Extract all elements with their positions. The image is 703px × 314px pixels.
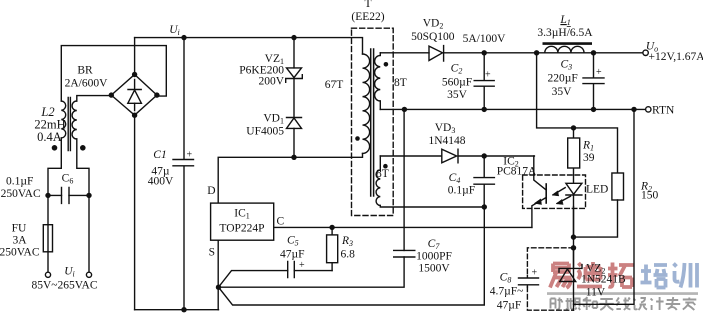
svg-text:L1: L1 — [559, 14, 570, 27]
node clamp to drain — [291, 155, 296, 160]
wire bias winding return rail — [380, 206, 484, 208]
primary phase dot — [355, 136, 360, 141]
svg-text:FU: FU — [12, 223, 27, 235]
resistor R3 6.8 — [331, 227, 333, 270]
IC1 TOP224P body — [211, 203, 274, 240]
svg-text:+12V,1.67A: +12V,1.67A — [649, 51, 703, 63]
wire feedback tap down to R1 R2 — [537, 53, 618, 173]
node C1 bottom — [181, 307, 186, 312]
node bias return C4 — [482, 204, 487, 209]
capacitor C1 47u 400V — [173, 38, 194, 310]
svg-text:+: + — [187, 150, 193, 161]
diode VD1 UF4005 — [287, 79, 302, 118]
wire C5 to R3 — [294, 270, 332, 272]
inductor L2 left winding — [61, 101, 65, 138]
watermark char ji — [651, 297, 664, 310]
fuse FU 3A — [43, 225, 52, 252]
optocoupler IC2 PC817A dashed box — [523, 175, 586, 208]
svg-text:LED: LED — [586, 184, 608, 196]
svg-text:6.8: 6.8 — [341, 249, 356, 261]
wire bias winding top — [379, 156, 381, 170]
svg-text:C2: C2 — [451, 63, 463, 76]
opto light arrow 2 — [557, 196, 570, 203]
svg-text:RTN: RTN — [652, 105, 675, 117]
L2 phase dot right — [80, 145, 86, 151]
watermark underline — [547, 292, 698, 295]
node Ui rail C1 tap — [181, 35, 186, 40]
svg-text:220µF: 220µF — [548, 73, 578, 85]
svg-text:0.4A: 0.4A — [37, 130, 62, 144]
capacitor C8 dashed connections — [527, 248, 573, 310]
watermark char he — [583, 297, 598, 310]
wire C7 to RTN drop — [403, 109, 405, 250]
node bridge right vertex — [154, 92, 159, 97]
inductor L2 right winding — [72, 101, 77, 139]
svg-text:39: 39 — [583, 152, 595, 164]
terminal Ui right — [86, 272, 91, 277]
svg-text:0.1µF: 0.1µF — [6, 176, 33, 188]
watermark slogan gray — [551, 297, 697, 310]
svg-text:C8: C8 — [500, 272, 512, 285]
wire bridge plus output to top rail — [134, 38, 136, 75]
wire secondary bottom to RTN — [379, 101, 381, 109]
node VD3 cathode C4 — [482, 153, 487, 158]
svg-text:C3: C3 — [560, 59, 572, 72]
svg-text:8T: 8T — [394, 77, 407, 89]
wire S to C5 line — [219, 271, 288, 288]
zener VZ2 1N5241B — [560, 269, 576, 282]
svg-text:400V: 400V — [148, 176, 174, 188]
svg-text:250VAC: 250VAC — [0, 247, 40, 259]
node feedback tap — [534, 50, 539, 55]
svg-text:5A/100V: 5A/100V — [463, 33, 507, 45]
wire L2 right to bridge left vertex — [77, 96, 112, 101]
svg-text:C: C — [277, 216, 285, 228]
svg-text:BR: BR — [77, 65, 93, 77]
svg-text:50SQ100: 50SQ100 — [411, 31, 455, 43]
svg-text:C6: C6 — [62, 173, 74, 186]
wire source S pin — [217, 240, 219, 310]
svg-text:R1: R1 — [582, 140, 594, 153]
transformer T dashed box — [352, 28, 394, 215]
capacitor C6 0.1uF plates — [62, 187, 70, 203]
bias phase dot — [383, 164, 388, 169]
svg-text:4.7µF~: 4.7µF~ — [490, 286, 524, 298]
svg-text:67T: 67T — [325, 79, 344, 91]
svg-text:3A: 3A — [12, 235, 27, 247]
svg-text:UF4005: UF4005 — [246, 126, 284, 138]
svg-text:R3: R3 — [341, 235, 353, 248]
wire C6 leads — [48, 194, 89, 196]
wire LED cathode to VZ2 — [573, 207, 575, 267]
wire output rail secondary — [380, 52, 643, 54]
watermark logo text red — [550, 262, 634, 288]
bridge BR inner diode — [128, 80, 141, 111]
svg-text:TOP224P: TOP224P — [219, 223, 264, 235]
svg-text:Ui: Ui — [64, 266, 75, 279]
svg-text:8T: 8T — [376, 168, 389, 180]
terminal Ui left — [45, 272, 50, 277]
svg-text:0.1µF: 0.1µF — [448, 185, 475, 197]
wire bias to VD3 — [380, 155, 534, 157]
svg-text:(EE22): (EE22) — [351, 11, 384, 23]
inductor L1 core bar — [544, 42, 591, 45]
wire AC input left branch — [48, 138, 61, 272]
watermark char she — [551, 298, 563, 310]
watermark char pin — [566, 298, 581, 310]
svg-text:D: D — [207, 185, 215, 197]
node C6 left — [45, 193, 50, 198]
resistor R1 39 — [573, 128, 575, 138]
svg-text:85V~265VAC: 85V~265VAC — [31, 280, 97, 292]
watermark char pei — [641, 265, 668, 288]
svg-text:Ui: Ui — [169, 24, 180, 37]
svg-text:1500V: 1500V — [418, 263, 450, 275]
svg-text:250VAC: 250VAC — [1, 188, 41, 200]
wire drain D to primary winding — [218, 154, 362, 204]
wire VZ2 return to RTN — [574, 109, 635, 304]
svg-text:VD2: VD2 — [423, 18, 444, 31]
svg-text:1000PF: 1000PF — [416, 251, 452, 263]
watermark char she2 — [634, 298, 648, 310]
wire S to bias return — [219, 207, 485, 305]
watermark logo text blue — [641, 263, 698, 288]
transformer primary winding 67T — [363, 54, 370, 153]
node C8 dashed tap — [571, 245, 576, 250]
svg-text:VD3: VD3 — [435, 122, 456, 135]
watermark char tian — [599, 299, 614, 310]
svg-text:1N5241B: 1N5241B — [581, 274, 626, 286]
transient suppressor VZ1 P6KE200 — [293, 38, 295, 68]
L2 phase dot left — [52, 145, 58, 151]
svg-text:+: + — [485, 70, 491, 81]
node C6 right — [86, 193, 91, 198]
svg-text:+: + — [299, 260, 305, 271]
svg-text:C5: C5 — [287, 235, 299, 248]
watermark char jia — [683, 298, 697, 311]
watermark char zhuan — [666, 297, 681, 310]
svg-text:11V: 11V — [586, 287, 606, 299]
terminal RTN — [646, 107, 651, 112]
bridge rectifier BR diamond — [111, 75, 157, 116]
capacitor C8 4.7uF-47uF plates — [519, 276, 539, 287]
watermark char tuo — [608, 263, 634, 288]
svg-text:VD1: VD1 — [263, 113, 284, 126]
opto emitter arrowhead — [534, 199, 541, 205]
wire RTN rail — [380, 108, 645, 110]
node LED cathode R2 — [571, 234, 576, 239]
svg-text:C7: C7 — [428, 238, 441, 251]
svg-text:2A/600V: 2A/600V — [65, 78, 109, 90]
opto phototransistor collector — [534, 156, 546, 190]
watermark char di — [577, 262, 602, 287]
transformer secondary winding 8T — [375, 55, 381, 101]
svg-text:+: + — [532, 268, 538, 279]
opto phototransistor bar — [545, 184, 547, 203]
node R1 top — [571, 125, 576, 130]
svg-text:C4: C4 — [449, 172, 461, 185]
svg-text:150: 150 — [641, 190, 659, 202]
capacitor C5 47uF plates — [288, 262, 295, 278]
wire VZ2 to dashed box bottom — [573, 248, 575, 310]
diode VD3 1N4148 — [442, 149, 458, 163]
secondary phase dot — [384, 62, 389, 67]
inductor L1 3.3uH — [545, 46, 584, 53]
wire S to C7 return — [219, 257, 405, 287]
node bridge top vertex — [132, 72, 137, 77]
node bridge bottom vertex — [132, 113, 137, 118]
svg-text:1N4148: 1N4148 — [428, 135, 465, 147]
wire control C pin — [274, 226, 532, 228]
svg-text:35V: 35V — [552, 86, 573, 98]
svg-text:47µF: 47µF — [280, 249, 305, 261]
node source S — [216, 285, 221, 290]
capacitor C2 560uF — [474, 53, 494, 110]
svg-text:200V: 200V — [258, 76, 284, 88]
svg-text:C1: C1 — [153, 149, 166, 161]
node bridge left vertex — [109, 92, 114, 97]
node C3 top — [591, 50, 596, 55]
watermark char yi — [550, 264, 570, 289]
capacitor C7 1000PF plates — [394, 250, 415, 257]
diode VD2 50SQ100 — [429, 46, 444, 61]
wire secondary top to output rail — [379, 53, 381, 56]
node VZ1 tap — [291, 35, 296, 40]
node C2 bottom — [482, 107, 487, 112]
terminal Uo — [643, 50, 648, 55]
capacitor C3 220uF — [583, 53, 604, 110]
wire R2 bottom to LED cathode — [574, 200, 618, 237]
wire L2 left to loop top to bridge right vertex — [61, 46, 166, 101]
watermark char xian — [616, 298, 630, 311]
opto light arrow 1 — [553, 188, 565, 195]
svg-text:35V: 35V — [447, 89, 468, 101]
opto LED — [566, 168, 582, 237]
watermark char xun — [674, 263, 698, 288]
opto phototransistor emitter — [532, 198, 546, 228]
wire AC input right branch — [77, 139, 89, 272]
svg-text:47µF: 47µF — [497, 300, 522, 312]
node R3 top — [329, 225, 334, 230]
node C2 top — [482, 50, 487, 55]
wire bridge minus to bottom rail — [134, 115, 136, 310]
node C3 bottom — [591, 107, 596, 112]
svg-text:PC817A: PC817A — [497, 166, 537, 178]
wire top DC rail Ui — [135, 38, 363, 54]
svg-text:S: S — [209, 247, 215, 259]
svg-text:3.3µH/6.5A: 3.3µH/6.5A — [537, 27, 593, 39]
node RTN feedback drop — [631, 107, 636, 112]
inductor L2 core — [68, 98, 70, 151]
transformer core — [371, 49, 374, 196]
wire bottom primary ground rail — [135, 309, 219, 311]
svg-text:560µF: 560µF — [442, 77, 472, 89]
svg-text:+: + — [596, 67, 602, 78]
capacitor C4 0.1uF — [474, 156, 494, 207]
resistor R2 150 — [612, 173, 624, 200]
svg-text:T: T — [364, 0, 371, 10]
node RTN secondary winding — [402, 107, 407, 112]
transformer bias winding 8T — [376, 170, 380, 205]
